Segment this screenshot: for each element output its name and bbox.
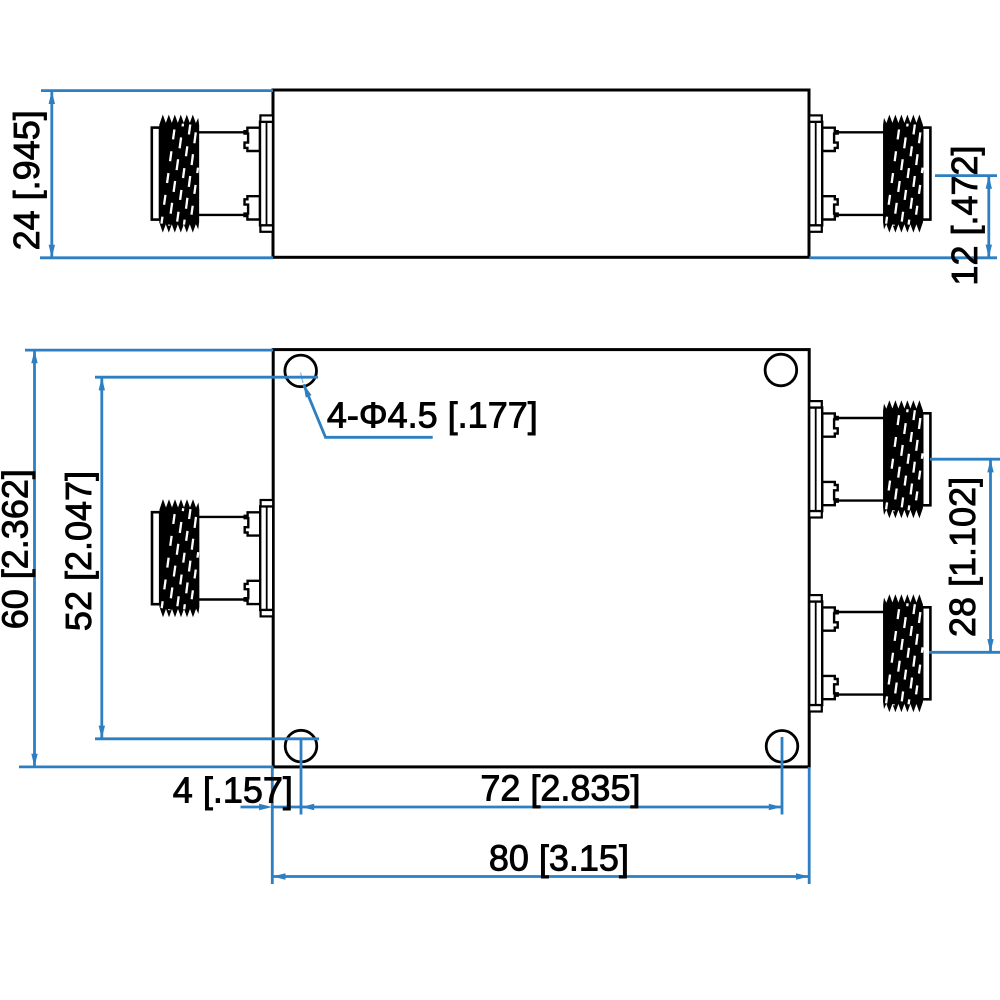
dimension line 4 middle: [272, 806, 301, 809]
extension line 12 bottom (box bottom right): [809, 256, 997, 259]
dimension line 52: [100, 377, 103, 739]
extension line 24 top: [41, 89, 273, 92]
leader hidden segment to hole center: [301, 373, 304, 384]
connector J1 input (plan view, left): [152, 500, 273, 616]
extension line 52 top (hole centerline): [95, 376, 318, 379]
knurl hatching J3 plan: [886, 601, 923, 706]
connector J1 input (side view, left): [152, 115, 273, 231]
dimension line 80: [272, 875, 809, 878]
arrow 24 down: [49, 245, 55, 258]
svg-text:12 [.472]: 12 [.472]: [944, 145, 985, 285]
mounting hole top-right: [765, 354, 797, 386]
arrow 28 up: [987, 459, 993, 472]
extension line 60 top: [25, 349, 273, 352]
extension line 24 bottom / box bottom left: [40, 256, 273, 259]
svg-text:28 [1.102]: 28 [1.102]: [942, 477, 983, 637]
extension line 28 bottom (connector J3 centerline): [929, 651, 1000, 654]
extension line 12 top (connector centerline): [935, 174, 997, 177]
leader arrow to hole: [304, 384, 312, 397]
svg-text:72 [2.835]: 72 [2.835]: [480, 768, 640, 809]
mounting hole bottom-right: [766, 731, 798, 763]
arrow 28 down: [987, 639, 993, 652]
connector J2 output (plan view, top right): [809, 401, 930, 517]
svg-text:4 [.157]: 4 [.157]: [173, 770, 293, 811]
svg-text:52 [2.047]: 52 [2.047]: [58, 471, 99, 631]
arrow 4 pointing right: [259, 804, 272, 810]
svg-text:60 [2.362]: 60 [2.362]: [0, 469, 36, 629]
side view body: [273, 90, 809, 257]
knurl hatching J2/J3 side: [886, 122, 923, 227]
knurl hatching J1 side: [162, 122, 199, 227]
extension line 52 bottom (hole centerline): [95, 737, 319, 740]
dimension line 12: [987, 176, 990, 258]
leader line 4-hole callout: [304, 384, 433, 437]
extension line vertical box-left (4/80 dims): [271, 767, 274, 884]
svg-text:24 [.945]: 24 [.945]: [6, 110, 47, 250]
extension line vertical hole-right (72 dim): [781, 737, 784, 815]
arrow 52 down: [99, 726, 105, 739]
arrow 80 left: [272, 873, 285, 879]
knurl hatching J1 plan: [162, 506, 199, 611]
mounting hole bottom-left: [285, 730, 317, 762]
plan view body: [273, 350, 809, 767]
dimension line 60: [33, 350, 36, 767]
arrow 60 down: [31, 754, 37, 767]
knurl hatching J2 plan: [886, 407, 923, 512]
dimension line 72: [301, 806, 782, 809]
extension line 60 bottom: [19, 766, 273, 769]
extension line 28 top (connector J2 centerline): [930, 458, 1000, 461]
arrow 72 left: [301, 804, 314, 810]
arrow 24 up: [49, 91, 55, 104]
extension line vertical hole-left (4/72 dims): [300, 739, 303, 815]
svg-text:4-Φ4.5 [.177]: 4-Φ4.5 [.177]: [327, 395, 538, 436]
dimension line 24: [50, 91, 53, 258]
arrow 12 up: [986, 176, 992, 189]
connector J2/J3 outputs (side view, right): [809, 115, 930, 231]
dimension line 4 tail: [241, 806, 260, 809]
arrow 60 up: [31, 350, 37, 363]
arrow 80 right: [796, 873, 809, 879]
mounting hole top-left: [285, 355, 317, 387]
extension line vertical box-right (80 dim): [808, 767, 811, 884]
arrow 72 right: [769, 804, 782, 810]
arrow 12 down: [986, 245, 992, 258]
dimension line 28: [989, 459, 992, 652]
svg-text:80 [3.15]: 80 [3.15]: [489, 838, 629, 879]
connector J3 output (plan view, bottom right): [809, 595, 930, 711]
arrow 52 up: [99, 377, 105, 390]
